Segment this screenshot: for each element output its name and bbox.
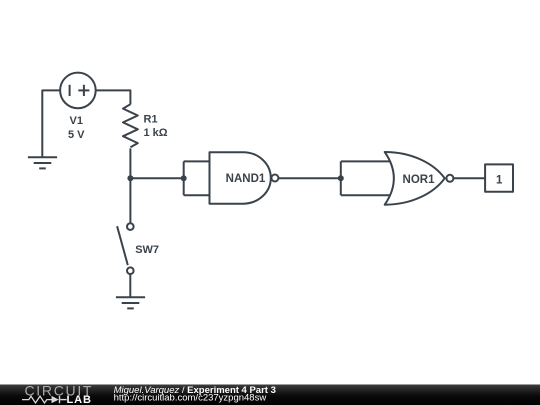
logo LAB text — [67, 394, 92, 405]
wire NOR input bar — [340, 161, 342, 195]
wire NAND input stub A — [184, 160, 211, 162]
footer credit line — [114, 385, 276, 404]
wire switch to ground — [129, 274, 131, 297]
wire V1 left to ground — [42, 90, 60, 157]
node junction dot at resistor/switch — [127, 175, 133, 181]
resistor R1 zigzag — [123, 104, 138, 147]
svg-text:1: 1 — [496, 175, 503, 187]
svg-text:SW7: SW7 — [135, 244, 159, 256]
gate NAND1 — [210, 152, 279, 204]
logo diode — [52, 396, 67, 403]
wire NAND input bar — [183, 161, 185, 195]
logo CIRCUIT text — [25, 383, 94, 399]
label V1 — [70, 115, 83, 127]
wire NAND output to NOR input bar — [279, 177, 341, 179]
ground GND switch — [116, 297, 145, 308]
wire V1 right to resistor top — [96, 90, 131, 104]
label 5 V — [68, 129, 85, 141]
switch SW7 — [117, 223, 134, 274]
svg-text:R1: R1 — [144, 114, 158, 126]
wire NOR input stub B — [341, 194, 392, 196]
svg-text:NAND1: NAND1 — [226, 173, 266, 185]
wire junction to NAND input bar — [130, 177, 183, 179]
label output value 1 — [496, 175, 503, 187]
ground GND left — [28, 157, 57, 168]
svg-text:1 kΩ: 1 kΩ — [144, 127, 168, 139]
node junction dot NAND input — [181, 175, 187, 181]
wire NOR input stub A — [341, 160, 392, 162]
label 1 kOhm — [144, 127, 168, 139]
wire NOR output to output box — [454, 177, 486, 179]
wire NAND input stub B — [184, 194, 211, 196]
label R1 — [144, 114, 158, 126]
label NAND1 — [226, 173, 266, 185]
label NOR1 — [403, 174, 436, 186]
logo resistor squiggle — [22, 396, 52, 403]
wire resistor bottom to junction — [129, 148, 131, 178]
node junction dot NOR input — [338, 175, 344, 181]
gate NOR1 — [385, 152, 454, 205]
label SW7 — [135, 244, 159, 256]
svg-text:http://circuitlab.com/c237yzpg: http://circuitlab.com/c237yzpgn48sw — [114, 393, 267, 404]
svg-text:5 V: 5 V — [68, 129, 85, 141]
wire junction to switch — [129, 178, 131, 223]
svg-text:NOR1: NOR1 — [403, 174, 436, 186]
digital output box — [485, 164, 513, 191]
svg-text:LAB: LAB — [67, 394, 92, 405]
voltage source V1 — [60, 73, 96, 109]
svg-text:V1: V1 — [70, 115, 83, 127]
